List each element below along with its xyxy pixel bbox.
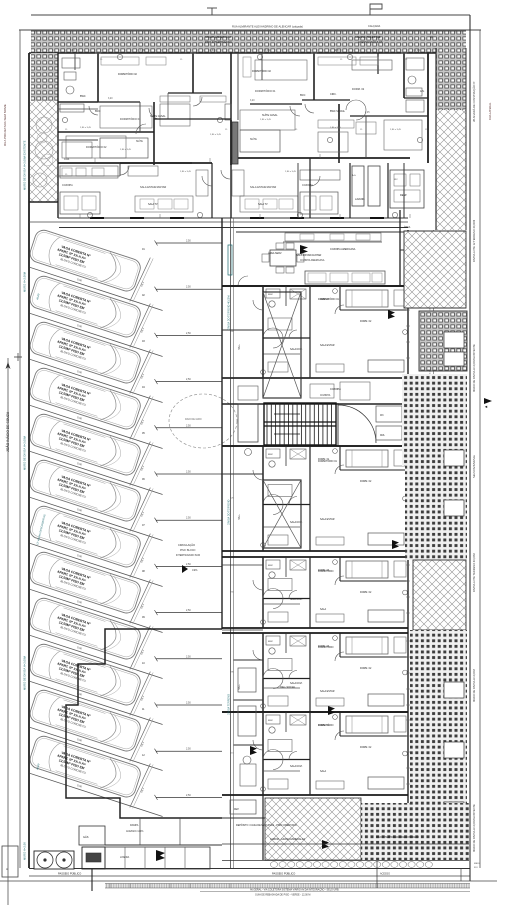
- svg-text:LIXEIRA: LIXEIRA: [120, 856, 130, 859]
- svg-text:BWC: BWC: [95, 111, 101, 113]
- svg-text:HALL: HALL: [238, 513, 241, 520]
- svg-text:2,50: 2,50: [186, 286, 191, 289]
- svg-text:BWC: BWC: [268, 565, 274, 567]
- svg-text:FIO: FIO: [474, 867, 478, 869]
- svg-text:1,95: 1,95: [415, 50, 420, 52]
- svg-text:ACESSO i=20%: ACESSO i=20%: [126, 830, 144, 833]
- svg-text:JD: JD: [430, 35, 433, 39]
- svg-text:2,45: 2,45: [365, 112, 370, 114]
- svg-text:DORM. 02: DORM. 02: [360, 746, 372, 749]
- svg-text:WC: WC: [380, 415, 384, 417]
- svg-text:3,20: 3,20: [250, 100, 255, 102]
- svg-text:2,50: 2,50: [186, 702, 191, 705]
- svg-text:DORM. 02: DORM. 02: [352, 87, 365, 91]
- svg-text:GUIA DE REBAIXADA DE PISO - VE: GUIA DE REBAIXADA DE PISO - VERDE - 12,0…: [255, 894, 310, 897]
- svg-text:3,45: 3,45: [265, 50, 270, 52]
- svg-text:2,50: 2,50: [186, 378, 191, 381]
- svg-text:DML: DML: [380, 435, 386, 437]
- svg-text:PISO INTERTRAVADO DE CONCRETO: PISO INTERTRAVADO DE CONCRETO: [376, 836, 419, 839]
- svg-text:COZINHA: COZINHA: [330, 388, 341, 391]
- svg-text:◄: ◄: [484, 404, 488, 409]
- svg-text:COZINHA: COZINHA: [302, 184, 313, 187]
- svg-text:MURO DE DIVISA H=2,00M: MURO DE DIVISA H=2,00M: [472, 669, 476, 702]
- svg-text:RUA LATERAL: RUA LATERAL: [488, 102, 492, 120]
- svg-text:BWC: BWC: [268, 294, 274, 296]
- svg-text:DORMITÓRIO 01: DORMITÓRIO 01: [318, 460, 338, 463]
- svg-text:INTERTRAVADO 6CM: INTERTRAVADO 6CM: [176, 554, 200, 557]
- svg-text:DORMITÓRIO: DORMITÓRIO: [318, 646, 334, 649]
- svg-text:2,80 x 3,45: 2,80 x 3,45: [285, 171, 297, 173]
- svg-text:MURO DE DIVISA H=2,00M EXISTEN: MURO DE DIVISA H=2,00M EXISTENTE: [23, 140, 27, 190]
- svg-text:DESP.: DESP.: [400, 194, 407, 197]
- svg-text:SALA/COZ.: SALA/COZ.: [290, 682, 303, 685]
- svg-text:SALA ESTAR/JANTAR: SALA ESTAR/JANTAR: [250, 185, 276, 189]
- svg-text:2,50: 2,50: [186, 563, 191, 566]
- svg-text:2,80 x 3,45: 2,80 x 3,45: [120, 149, 132, 151]
- svg-text:2,50: 2,50: [186, 240, 191, 243]
- svg-text:SALA ESTAR: SALA ESTAR: [320, 690, 335, 693]
- svg-text:2,50: 2,50: [186, 517, 191, 520]
- svg-text:DORM. 02: DORM. 02: [360, 320, 372, 323]
- svg-text:DORM. 02: DORM. 02: [360, 480, 372, 483]
- svg-text:COZ.: COZ.: [64, 158, 70, 161]
- svg-text:2,80 x 3,45: 2,80 x 3,45: [210, 134, 222, 136]
- svg-text:DORMITÓRIO: DORMITÓRIO: [318, 570, 334, 573]
- svg-text:ÁREA: ÁREA: [404, 226, 411, 229]
- svg-text:2,80 x 3,45: 2,80 x 3,45: [330, 127, 342, 129]
- svg-text:HALL: HALL: [238, 343, 241, 350]
- svg-text:3,45: 3,45: [140, 50, 145, 52]
- svg-text:HALL SOCIAL: HALL SOCIAL: [280, 686, 296, 689]
- svg-text:2,80: 2,80: [335, 50, 340, 52]
- svg-text:2,80: 2,80: [70, 50, 75, 52]
- svg-text:DORMITÓRIO 01: DORMITÓRIO 01: [320, 298, 340, 301]
- svg-text:2,80 x 3,45: 2,80 x 3,45: [390, 129, 402, 131]
- svg-text:SALA ESTAR/JANTAR: SALA ESTAR/JANTAR: [296, 254, 322, 257]
- svg-text:MURO H=2,00M: MURO H=2,00M: [23, 271, 27, 292]
- svg-text:DORM. 02: DORM. 02: [360, 591, 372, 594]
- svg-text:3,20: 3,20: [108, 98, 113, 100]
- svg-text:AV.GERAL - VIA COLETORA SISTEM: AV.GERAL - VIA COLETORA SISTEMA VIÁRIO A…: [250, 889, 340, 892]
- svg-text:MURO DE DIVISA H=2,00M: MURO DE DIVISA H=2,00M: [23, 435, 27, 470]
- svg-text:BWC: BWC: [80, 95, 86, 98]
- svg-text:SUÍTE: SUÍTE: [136, 140, 143, 143]
- svg-text:ÁREA SERV.: ÁREA SERV.: [268, 252, 282, 255]
- svg-text:ACESSO PEDESTRE: ACESSO PEDESTRE: [355, 35, 381, 39]
- svg-text:MURO DE DIVISA H=2,00M EXISTEN: MURO DE DIVISA H=2,00M EXISTENTE: [472, 804, 476, 852]
- svg-text:SALA/COZ.: SALA/COZ.: [290, 598, 303, 601]
- svg-text:PISO INTERTRAVADO: PISO INTERTRAVADO: [205, 40, 232, 44]
- svg-text:PISO: BLOCO: PISO: BLOCO: [180, 549, 196, 552]
- svg-text:ACESSO VEÍCULOS: ACESSO VEÍCULOS: [358, 40, 383, 44]
- svg-text:SUÍTE: SUÍTE: [250, 138, 257, 141]
- svg-text:RUA PROJETADA SEM NOME: RUA PROJETADA SEM NOME: [3, 104, 7, 146]
- svg-text:BWC: BWC: [268, 720, 274, 722]
- svg-text:DEPÓSITO / CASA DE MÁQUINAS -: DEPÓSITO / CASA DE MÁQUINAS - PISO CIMEN…: [236, 824, 297, 827]
- svg-text:A.S.: A.S.: [352, 174, 357, 177]
- svg-text:BWC: BWC: [300, 95, 306, 97]
- svg-text:GÁS: GÁS: [83, 835, 89, 839]
- svg-text:NELSON/JUVENAL: NELSON/JUVENAL: [472, 454, 476, 478]
- svg-text:SALA TV: SALA TV: [258, 203, 268, 206]
- svg-text:RAMPA: RAMPA: [130, 824, 139, 827]
- svg-text:DIVISA LOTE TERRENO 40,00M: DIVISA LOTE TERRENO 40,00M: [472, 553, 476, 592]
- svg-text:2,80 x 3,45: 2,80 x 3,45: [260, 119, 272, 121]
- svg-text:DORMITÓRIO 02: DORMITÓRIO 02: [118, 73, 138, 76]
- svg-text:SALA ESTAR/JANTAR: SALA ESTAR/JANTAR: [140, 185, 166, 189]
- svg-text:A.S.: A.S.: [420, 90, 425, 93]
- svg-text:2,50: 2,50: [186, 748, 191, 751]
- svg-text:SALA ESTAR: SALA ESTAR: [320, 344, 335, 347]
- svg-text:SUÍTE CASAL: SUÍTE CASAL: [150, 115, 166, 118]
- svg-text:MURO DE DIVISA H=2,00M: MURO DE DIVISA H=2,00M: [23, 655, 27, 690]
- svg-text:2,80 x 3,45: 2,80 x 3,45: [180, 171, 192, 173]
- svg-text:DIVISA DO TERRENO: DIVISA DO TERRENO: [228, 500, 231, 525]
- svg-text:DORMITÓRIO: DORMITÓRIO: [318, 724, 334, 727]
- svg-text:BWC: BWC: [268, 454, 274, 456]
- svg-text:HALL: HALL: [238, 683, 241, 690]
- svg-text:GRAMA ESMERALDA: GRAMA ESMERALDA: [205, 35, 231, 39]
- svg-text:2,50: 2,50: [186, 655, 191, 658]
- svg-text:2,80 x 3,45: 2,80 x 3,45: [80, 127, 92, 129]
- svg-text:CIRC.: CIRC.: [330, 93, 337, 96]
- svg-text:DEP.: DEP.: [234, 809, 239, 811]
- svg-text:SUÍTE CASAL: SUÍTE CASAL: [262, 114, 278, 117]
- svg-text:MURO H=2,00: MURO H=2,00: [23, 842, 27, 860]
- svg-text:LAVAND.: LAVAND.: [355, 198, 365, 201]
- svg-text:WC: WC: [394, 179, 398, 181]
- svg-text:JARDIM - GRAMA ESMERALDA: JARDIM - GRAMA ESMERALDA: [270, 838, 305, 841]
- svg-text:COZINHA AMERICANA: COZINHA AMERICANA: [330, 248, 356, 251]
- svg-text:COZINHA: COZINHA: [320, 394, 331, 397]
- svg-text:DORMITÓRIO 02: DORMITÓRIO 02: [252, 70, 272, 73]
- svg-text:DIVISA LOTE 12 TERRENO 40,00M: DIVISA LOTE 12 TERRENO 40,00M: [472, 220, 476, 262]
- svg-text:SALA: SALA: [320, 608, 327, 611]
- svg-text:2,50: 2,50: [186, 424, 191, 427]
- svg-text:DIVISA DO TERRENO 40,00M: DIVISA DO TERRENO 40,00M: [228, 296, 231, 330]
- svg-text:CALÇADA: CALÇADA: [368, 24, 381, 28]
- svg-text:DORM. 02: DORM. 02: [360, 667, 372, 670]
- svg-text:SALA: SALA: [320, 770, 327, 773]
- svg-text:COZINHA AMERICANA: COZINHA AMERICANA: [300, 259, 325, 262]
- svg-text:2,50: 2,50: [186, 794, 191, 797]
- svg-text:i=2%: i=2%: [192, 569, 198, 572]
- svg-text:SALA TV: SALA TV: [148, 203, 158, 206]
- svg-text:JOÃO INÁCIO DE SOUZA: JOÃO INÁCIO DE SOUZA: [5, 411, 10, 452]
- svg-text:2,50: 2,50: [186, 332, 191, 335]
- svg-text:RAIO DE GIRO: RAIO DE GIRO: [185, 418, 202, 421]
- svg-text:BWC: BWC: [268, 641, 274, 643]
- svg-text:2,50: 2,50: [186, 609, 191, 612]
- svg-text:2,80: 2,80: [210, 50, 215, 52]
- svg-text:ACESSO: ACESSO: [380, 873, 390, 876]
- svg-text:DIVISA TERRENO: DIVISA TERRENO: [228, 694, 231, 715]
- svg-text:2,50: 2,50: [186, 471, 191, 474]
- svg-text:MEIO: MEIO: [474, 863, 480, 865]
- svg-text:SALA ESTAR: SALA ESTAR: [320, 518, 335, 521]
- svg-text:BWC SOCIAL: BWC SOCIAL: [330, 110, 346, 113]
- svg-text:COZINHA: COZINHA: [62, 184, 73, 187]
- svg-text:SALA/COZ.: SALA/COZ.: [290, 765, 303, 768]
- svg-text:RUA ALMIRANTE ALEXANDRINO DE A: RUA ALMIRANTE ALEXANDRINO DE ALENCAR (ca…: [232, 25, 303, 29]
- svg-text:MURO DE DIVISA H=2,00M EXISTEN: MURO DE DIVISA H=2,00M EXISTENTE: [472, 344, 476, 392]
